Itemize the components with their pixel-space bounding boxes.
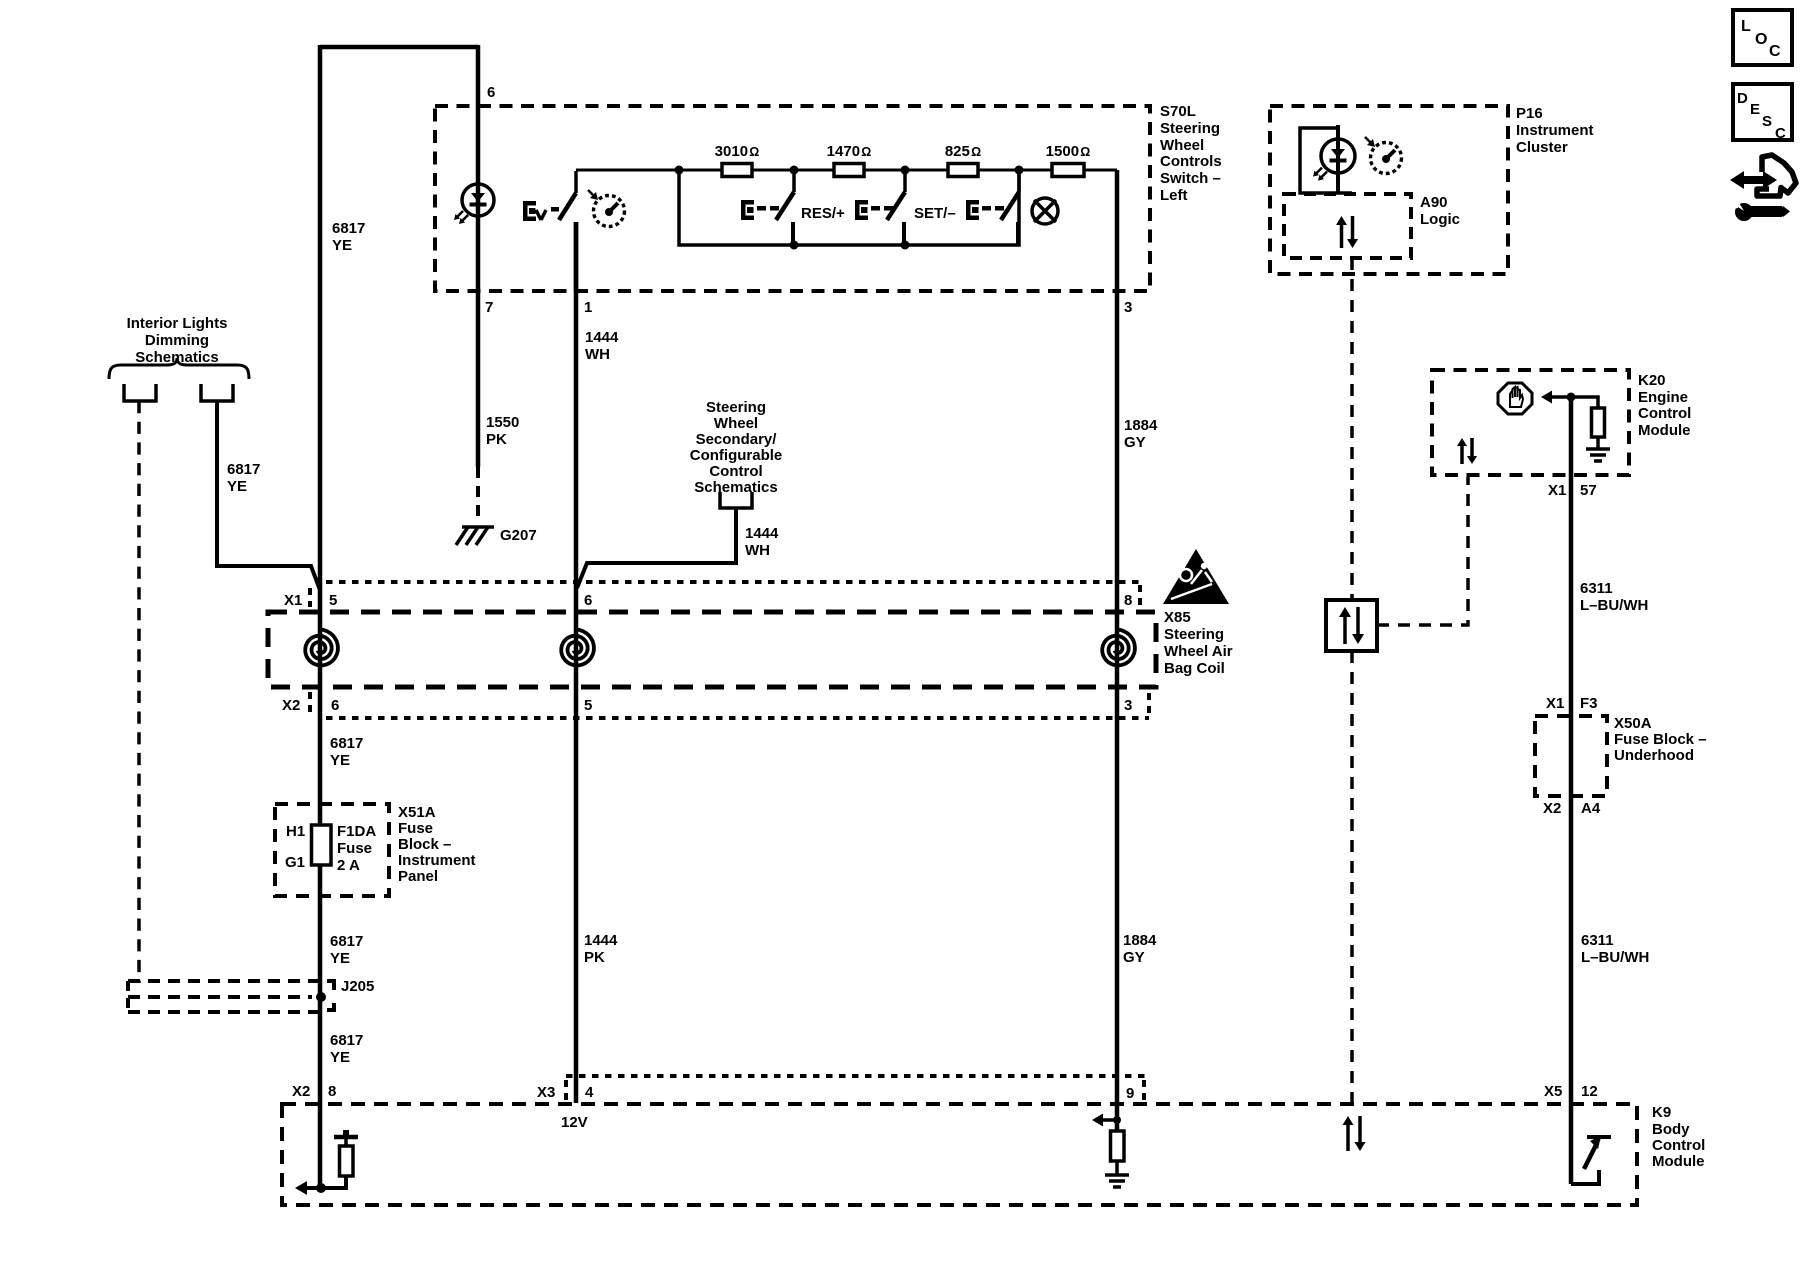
node top rail at x=1019 (1015, 166, 1024, 175)
node top rail at x=679 (675, 166, 684, 175)
resistor to ground in K9 (1111, 1131, 1125, 1161)
svg-text:1444: 1444 (584, 932, 618, 949)
label K9 module (1652, 1104, 1705, 1170)
pin X2 6 band (282, 697, 339, 714)
svg-text:Interior Lights: Interior Lights (127, 315, 228, 332)
coil in X85 at x=576 (561, 630, 594, 666)
icon LOC box (1733, 10, 1792, 65)
label wire 1884 GY upper (1124, 417, 1158, 451)
icon serial data arrows at K9 top (1343, 1116, 1366, 1151)
module P16 Instrument Cluster (dashed box) (1270, 106, 1508, 274)
pin X2 A4 X50A (1543, 800, 1601, 817)
svg-text:1884: 1884 (1124, 417, 1158, 434)
svg-text:Block –: Block – (398, 836, 451, 853)
svg-text:Wheel: Wheel (714, 415, 758, 432)
svg-text:Fuse: Fuse (398, 820, 433, 837)
label S70L module (1160, 103, 1222, 204)
wire 6817 from right terminal to main line (217, 401, 320, 590)
svg-text:12V: 12V (561, 1114, 588, 1131)
svg-text:K20: K20 (1638, 372, 1666, 389)
svg-text:K9: K9 (1652, 1104, 1671, 1121)
svg-text:Control: Control (1638, 405, 1691, 422)
svg-text:Panel: Panel (398, 868, 438, 885)
svg-text:6817: 6817 (332, 220, 365, 237)
label Steering Wheel Secondary Configurable Control Schematics (690, 399, 783, 496)
node top rail at x=905 (901, 166, 910, 175)
module A90 Logic (dashed box) (1284, 194, 1411, 258)
label wire 6311 lower (1581, 932, 1649, 966)
coil in X85 at x=1117 (1102, 630, 1135, 666)
wire dashed from left terminal to J205 rect (137, 401, 141, 983)
label wire 1444 WH upper (585, 329, 619, 363)
svg-text:H1: H1 (286, 823, 305, 840)
label F1DA Fuse 2A (337, 823, 376, 874)
node J205 junction (316, 992, 326, 1002)
wire resistor to voltage bar in K9 (344, 1139, 348, 1146)
svg-text:Cluster: Cluster (1516, 139, 1568, 156)
svg-text:A90: A90 (1420, 194, 1448, 211)
node K9 pin8 junction (316, 1183, 326, 1193)
wire serial data dashed gateway to K9 (1350, 651, 1354, 1104)
wire resistor to ground in K9 pin9 (1115, 1161, 1119, 1175)
label wire 6817 below X2 (330, 735, 363, 769)
wire resistor to ground in K20 (1596, 437, 1600, 449)
icon cancel circle-X (1032, 198, 1058, 224)
label G207 (500, 527, 537, 544)
fuse F1DA 2A (312, 825, 332, 865)
svg-text:Body: Body (1652, 1121, 1690, 1138)
label 12V (561, 1114, 588, 1131)
svg-text:1444: 1444 (585, 329, 619, 346)
svg-text:Fuse Block –: Fuse Block – (1614, 731, 1707, 748)
svg-text:Controls: Controls (1160, 153, 1222, 170)
pin G1 (285, 854, 305, 871)
svg-text:F3: F3 (1580, 695, 1598, 712)
svg-text:X1: X1 (1548, 482, 1566, 499)
module K20 Engine Control Module (dashed box) (1432, 370, 1629, 475)
pin 6 X1 band (584, 592, 592, 609)
svg-text:Instrument: Instrument (398, 852, 476, 869)
svg-text:7: 7 (485, 299, 493, 316)
svg-text:6311: 6311 (1580, 580, 1613, 597)
coil in X85 at x=320 (305, 630, 338, 666)
switch CANCEL under node x=1019 (966, 170, 1019, 245)
svg-text:Logic: Logic (1420, 211, 1460, 228)
svg-text:1884: 1884 (1123, 932, 1157, 949)
pin 8 X1 band (1124, 592, 1132, 609)
svg-text:Wheel Air: Wheel Air (1164, 643, 1233, 660)
pin X1 5 band (284, 592, 337, 609)
svg-text:YE: YE (332, 237, 352, 254)
svg-text:Left: Left (1160, 187, 1188, 204)
label X50A module (1614, 715, 1707, 764)
label RES/+ (801, 205, 845, 222)
svg-text:WH: WH (745, 542, 770, 559)
svg-text:GY: GY (1123, 949, 1145, 966)
svg-text:X50A: X50A (1614, 715, 1652, 732)
svg-text:X1: X1 (1546, 695, 1564, 712)
resistor pullup in K9 (340, 1146, 354, 1176)
pin 7 S70L (485, 299, 493, 316)
terminal right (to dimming schematics) (201, 384, 233, 401)
svg-text:X2: X2 (1543, 800, 1561, 817)
label SET/- (914, 205, 956, 222)
svg-text:Switch –: Switch – (1160, 170, 1221, 187)
connector X3 bracket left (564, 1080, 568, 1100)
svg-text:5: 5 (584, 697, 592, 714)
svg-text:1550: 1550 (486, 414, 519, 431)
splice J205 bracket (327, 981, 334, 1010)
wire 6817 top horizontal from main line to pin 6 (320, 45, 478, 50)
terminal to secondary control schematics (720, 492, 752, 508)
connector band X3 dotted line (566, 1074, 1146, 1078)
pin X1 57 K20 (1548, 482, 1597, 499)
wire arrow to octagon in K20 (1541, 391, 1572, 404)
svg-text:X3: X3 (537, 1084, 555, 1101)
switch cruise on-off in S70L (523, 171, 576, 221)
svg-text:Wheel: Wheel (1160, 137, 1204, 154)
svg-text:Engine: Engine (1638, 389, 1688, 406)
label wire 6817 below fuse (330, 933, 363, 967)
svg-text:D: D (1737, 90, 1748, 107)
switch SET under node x=905 (855, 170, 905, 245)
svg-text:Configurable: Configurable (690, 447, 783, 464)
svg-text:Secondary/: Secondary/ (696, 431, 778, 448)
svg-text:6311: 6311 (1581, 932, 1614, 949)
resistor 1500 ohm (1052, 164, 1084, 177)
ground in K9 pin9 (1105, 1175, 1129, 1187)
switch RES under node x=794 (741, 170, 794, 245)
svg-text:L–BU/WH: L–BU/WH (1581, 949, 1649, 966)
pin X5 12 K9 (1544, 1083, 1598, 1100)
wire 1884 GY vertical (x=1117) (1115, 170, 1120, 1131)
svg-text:6817: 6817 (330, 1032, 363, 1049)
svg-text:G1: G1 (285, 854, 305, 871)
label J205 (341, 978, 374, 995)
svg-text:6817: 6817 (330, 933, 363, 950)
wire 6817 YE main vertical (x=320) (318, 45, 323, 1188)
svg-text:1444: 1444 (745, 525, 779, 542)
svg-text:9: 9 (1126, 1085, 1134, 1102)
svg-text:Bag Coil: Bag Coil (1164, 660, 1225, 677)
svg-text:Dimming: Dimming (145, 332, 209, 349)
svg-text:1500 Ω: 1500 Ω (1046, 143, 1091, 160)
svg-text:YE: YE (330, 1049, 350, 1066)
pin X1 F3 X50A (1546, 695, 1598, 712)
svg-text:Control: Control (709, 463, 762, 480)
svg-text:12: 12 (1581, 1083, 1598, 1100)
connector X51A Fuse Block Instrument Panel (dashed box) (275, 804, 389, 896)
node bottom rail at x=794 (790, 241, 799, 250)
svg-text:Fuse: Fuse (337, 840, 372, 857)
icon driver alert octagon hand in K20 (1498, 383, 1532, 414)
splice J205 dashed box (128, 981, 322, 1012)
wire K9 pin8 branch to resistor (321, 1176, 346, 1188)
pin 3 S70L (1124, 299, 1132, 316)
switch driver inside K9 pin12 (1571, 1104, 1611, 1184)
resistor 1470 ohm (834, 164, 864, 177)
pin 9 band (1126, 1085, 1134, 1102)
svg-text:Steering: Steering (706, 399, 766, 416)
svg-text:Steering: Steering (1164, 626, 1224, 643)
svg-text:57: 57 (1580, 482, 1597, 499)
wire arrow left inside K9 pin9 (1092, 1114, 1117, 1127)
junction serial data gateway box (1326, 600, 1377, 651)
LED backlight in P16 (1313, 139, 1355, 181)
node K9 pin9 junction (1113, 1116, 1121, 1124)
label wire 6817 upper (332, 220, 365, 254)
label wire 1550 PK (486, 414, 519, 448)
svg-text:1: 1 (584, 299, 592, 316)
icon serial data arrows in A90 (1336, 216, 1358, 248)
pin H1 (286, 823, 305, 840)
svg-text:RES/+: RES/+ (801, 205, 845, 222)
label wire 1444 PK (584, 932, 618, 966)
node top rail at x=794 (790, 166, 799, 175)
resistor 3010 ohm (722, 164, 752, 177)
svg-text:J205: J205 (341, 978, 374, 995)
svg-text:YE: YE (227, 478, 247, 495)
svg-text:L: L (1741, 18, 1751, 35)
svg-text:8: 8 (328, 1083, 336, 1100)
svg-text:E: E (1750, 101, 1760, 118)
svg-text:1470 Ω: 1470 Ω (827, 143, 872, 160)
pin 3 X2 band (1124, 697, 1132, 714)
svg-text:Module: Module (1638, 422, 1691, 439)
svg-text:L–BU/WH: L–BU/WH (1580, 597, 1648, 614)
connector X1 bracket left (308, 588, 312, 607)
module K9 Body Control Module (dashed box) (282, 1104, 1637, 1205)
svg-text:X2: X2 (282, 697, 300, 714)
ground G207 (456, 527, 494, 545)
svg-text:C: C (1769, 43, 1781, 60)
svg-text:S: S (1762, 113, 1772, 130)
svg-text:PK: PK (486, 431, 507, 448)
connector band X1 dotted line (326, 580, 1140, 584)
label X85 module (1164, 609, 1233, 677)
icon serial data arrows in K20 (1457, 438, 1477, 464)
wire 1550 PK dashed to ground (476, 467, 480, 524)
resistor pullup in K20 (1592, 408, 1605, 437)
label Interior Lights Dimming Schematics (127, 315, 228, 366)
pin 6 S70L (487, 84, 495, 101)
svg-text:3: 3 (1124, 299, 1132, 316)
svg-text:F1DA: F1DA (337, 823, 376, 840)
svg-text:Schematics: Schematics (135, 349, 218, 366)
wire 1444 WH from terminal to main line (577, 508, 736, 588)
svg-text:Underhood: Underhood (1614, 747, 1694, 764)
svg-text:WH: WH (585, 346, 610, 363)
svg-text:6817: 6817 (330, 735, 363, 752)
label 3010 ohm (715, 143, 760, 160)
svg-text:GY: GY (1124, 434, 1146, 451)
node K20 junction (1567, 393, 1576, 402)
wire K20 junction to resistor (1571, 397, 1598, 408)
node bottom rail at x=905 (901, 241, 910, 250)
icon cruise gauge in S70L (588, 190, 625, 227)
connector X50A Fuse Block Underhood (dashed box) (1535, 716, 1607, 796)
label 1500 ohm (1046, 143, 1091, 160)
wire switch to pin 1 (x=576) (574, 222, 579, 292)
wire arrow left inside K9 pin8 (295, 1181, 321, 1195)
LED backlight in S70L (454, 184, 494, 224)
label A90 Logic (1420, 194, 1460, 228)
label X51A module (398, 804, 476, 885)
connector band X2 dotted line (326, 716, 1149, 720)
label K20 module (1638, 372, 1691, 439)
svg-text:C: C (1775, 125, 1786, 142)
icon DESC box (1733, 84, 1792, 142)
svg-text:Instrument: Instrument (1516, 122, 1594, 139)
svg-text:SET/–: SET/– (914, 205, 956, 222)
ground in K20 (1586, 449, 1610, 461)
wire 1444 vertical (x=576) (574, 222, 579, 1103)
svg-text:6817: 6817 (227, 461, 260, 478)
label wire 6817 below J205 (330, 1032, 363, 1066)
svg-text:6: 6 (584, 592, 592, 609)
svg-text:Control: Control (1652, 1137, 1705, 1154)
svg-text:YE: YE (330, 950, 350, 967)
wire LED vertical in P16 (1336, 125, 1340, 193)
svg-text:O: O (1755, 31, 1767, 48)
pin 1 S70L (584, 299, 592, 316)
label wire 1444 WH branch (745, 525, 779, 559)
module X85 Steering Wheel Air Bag Coil (dashed box) (268, 612, 1156, 687)
wire serial data dashed from A90 to gateway (1350, 258, 1354, 600)
svg-text:X1: X1 (284, 592, 302, 609)
wire LED loop in P16 (1300, 128, 1352, 193)
svg-text:YE: YE (330, 752, 350, 769)
connector X2 bracket left (308, 692, 312, 712)
pin X3 4 band (537, 1084, 594, 1101)
resistor 825 ohm (948, 164, 978, 177)
svg-text:X5: X5 (1544, 1083, 1562, 1100)
svg-text:3010 Ω: 3010 Ω (715, 143, 760, 160)
icon cruise gauge in P16 (1365, 137, 1402, 174)
connector X3 bracket right (1142, 1080, 1146, 1100)
label 825 ohm (945, 143, 981, 160)
svg-text:P16: P16 (1516, 105, 1543, 122)
svg-text:8: 8 (1124, 592, 1132, 609)
svg-text:Schematics: Schematics (694, 479, 777, 496)
svg-text:3: 3 (1124, 697, 1132, 714)
svg-text:X51A: X51A (398, 804, 436, 821)
svg-text:6: 6 (331, 697, 339, 714)
wire resistor ladder top rail y=170 (576, 169, 1117, 172)
wire pin6 to LED to pin 7 (x=478) (476, 45, 481, 467)
svg-text:2 A: 2 A (337, 857, 360, 874)
svg-text:G207: G207 (500, 527, 537, 544)
svg-text:S70L: S70L (1160, 103, 1196, 120)
label wire 6817 branch (227, 461, 260, 495)
icon airbag warning triangle (1163, 549, 1229, 604)
label wire 6311 upper (1580, 580, 1648, 614)
connector X1 bracket right (1138, 585, 1142, 608)
terminal left (to dimming schematics) (124, 384, 156, 401)
icon diagnostic arrow and wrench (1730, 155, 1796, 221)
wire serial data dashed gateway to K20 (1377, 477, 1468, 625)
svg-text:Module: Module (1652, 1153, 1705, 1170)
svg-text:5: 5 (329, 592, 337, 609)
svg-text:4: 4 (585, 1084, 594, 1101)
voltage supply bar in K9 (334, 1130, 358, 1137)
svg-text:A4: A4 (1581, 800, 1601, 817)
module S70L Steering Wheel Controls Switch - Left (dashed box) (435, 106, 1150, 291)
connector X2 bracket right (1147, 693, 1151, 717)
label wire 1884 GY lower (1123, 932, 1157, 966)
pin 5 X2 band (584, 697, 592, 714)
svg-text:6: 6 (487, 84, 495, 101)
svg-text:825 Ω: 825 Ω (945, 143, 981, 160)
svg-text:X85: X85 (1164, 609, 1191, 626)
svg-text:PK: PK (584, 949, 605, 966)
wire ladder right end to pin 3 (x=1117) (1084, 169, 1117, 172)
pin X2 8 K9 (292, 1083, 336, 1100)
label P16 module (1516, 105, 1594, 156)
svg-text:Steering: Steering (1160, 120, 1220, 137)
label 1470 ohm (827, 143, 872, 160)
wire resistor ladder bottom rail y=245 (679, 170, 1019, 245)
wire 6311 L-BU/WH vertical (x=1571) (1569, 397, 1574, 1104)
brace under label (109, 358, 249, 379)
svg-text:X2: X2 (292, 1083, 310, 1100)
